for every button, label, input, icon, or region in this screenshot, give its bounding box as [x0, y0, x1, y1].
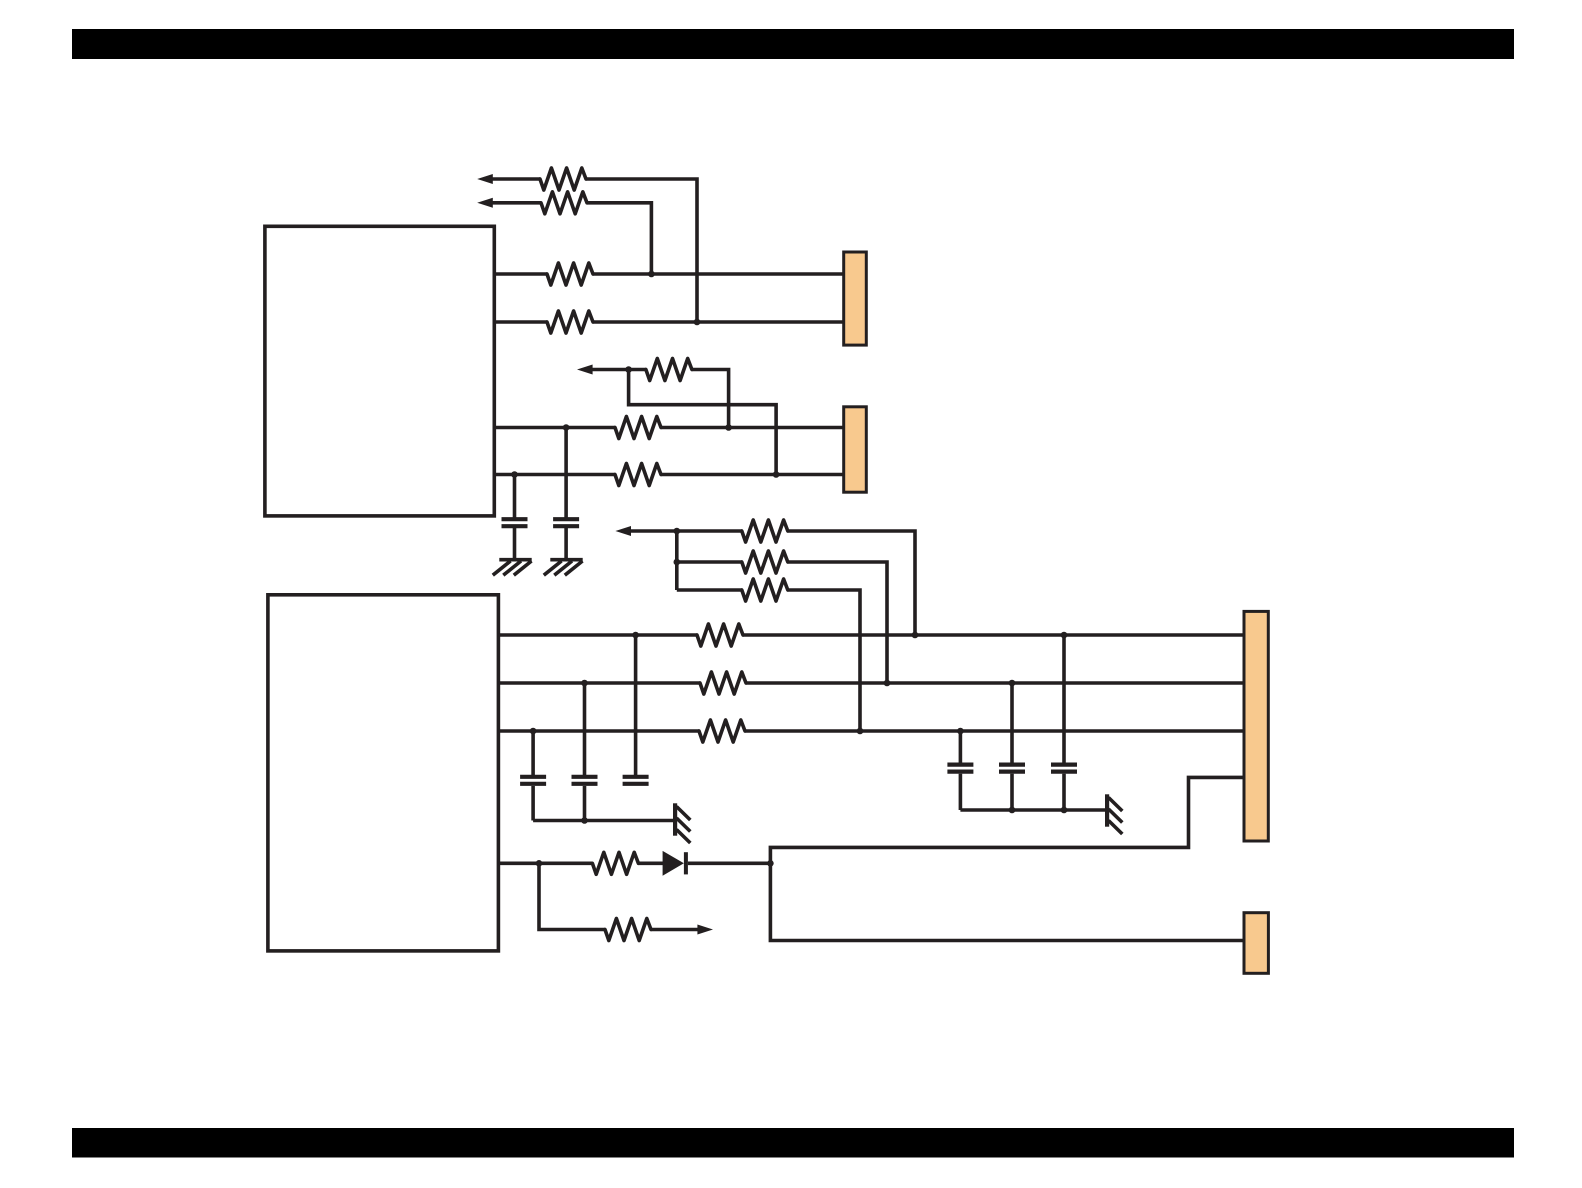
wire U1 pin row B [494, 426, 615, 430]
ground [493, 560, 532, 576]
wire from R2 to node at row3 [587, 203, 651, 274]
wire R4 to connector CN1 [593, 320, 844, 324]
capacitor C2 [553, 428, 579, 559]
wire diode node down to connector CN4 [770, 863, 1244, 940]
connector CN2 [844, 407, 867, 492]
wire R3 to connector CN1 [593, 272, 844, 276]
resistor R7 [615, 464, 661, 486]
resistor R6 [615, 417, 661, 439]
wire U2 pin row4 [498, 861, 592, 865]
capacitor C8 [1051, 635, 1077, 810]
wire U1 pin row4 [494, 320, 547, 324]
wire U2 pin row2 [498, 681, 700, 685]
wire R13 to connector CN3 [745, 729, 1244, 733]
connector CN1 [844, 252, 867, 345]
wire to R10 [677, 588, 742, 592]
resistor R15 [605, 919, 651, 941]
off-page arrow A3 [577, 365, 646, 375]
capacitor C4 [572, 683, 598, 821]
resistor R11 [697, 624, 743, 646]
wire R14 to diode [638, 861, 663, 865]
wire U1 pin row3 [494, 272, 547, 276]
resistor R13 [699, 720, 745, 742]
wire diode to node [688, 861, 771, 865]
wire U1 pin row C [494, 473, 615, 477]
ground [544, 560, 583, 576]
capacitor C6 [947, 731, 973, 810]
resistor R12 [700, 672, 746, 694]
off-page arrow A2 [477, 198, 541, 208]
wire vertical link of arrow node [675, 531, 679, 590]
diode D1 [663, 851, 688, 876]
wire from R1 to node at row4 [586, 179, 697, 322]
resistor R9 [742, 551, 788, 573]
off-page arrow A4 [615, 526, 741, 536]
resistor R4 [547, 311, 593, 333]
capacitor C5 [623, 635, 649, 784]
resistor R14 [592, 852, 638, 874]
capacitor C7 [999, 683, 1025, 810]
off-page arrow A5 [651, 925, 713, 935]
wire to R9 [677, 560, 742, 564]
resistor R8 [742, 520, 788, 542]
wire R6 to connector CN2 [661, 426, 844, 430]
wire U-link from node A3 to row C [629, 370, 777, 475]
IC U2 [268, 595, 499, 951]
wire ground bus left [533, 819, 673, 823]
wire R10 down to U2 row3 [788, 590, 860, 731]
wire U2 pin row1 [498, 633, 697, 637]
resistor R10 [742, 579, 788, 601]
wire diode node up to connector CN3 [770, 777, 1244, 863]
connector CN3 [1244, 611, 1268, 841]
ground [675, 803, 690, 843]
wire ground bus right [960, 808, 1105, 812]
off-page arrow A1 [477, 174, 540, 184]
ground [1107, 794, 1122, 834]
resistor R5 [646, 359, 692, 381]
resistor R1 [540, 168, 586, 190]
junction nodes [511, 271, 1067, 867]
wire row4 node down to R15 [539, 863, 605, 929]
capacitor C3 [520, 731, 546, 821]
resistor R2 [541, 192, 587, 214]
connector CN4 [1244, 913, 1268, 974]
wire R8 down to U2 row1 [788, 531, 915, 635]
resistor R3 [547, 263, 593, 285]
IC U1 [265, 226, 494, 516]
wire R12 to connector CN3 [746, 681, 1244, 685]
wire R9 down to U2 row2 [788, 562, 887, 683]
wire R5 down to row B [692, 370, 729, 428]
wire R11 to connector CN3 [743, 633, 1244, 637]
wire R7 to connector CN2 [661, 473, 844, 477]
wire U2 pin row3 [498, 729, 699, 733]
capacitor C1 [502, 475, 528, 559]
